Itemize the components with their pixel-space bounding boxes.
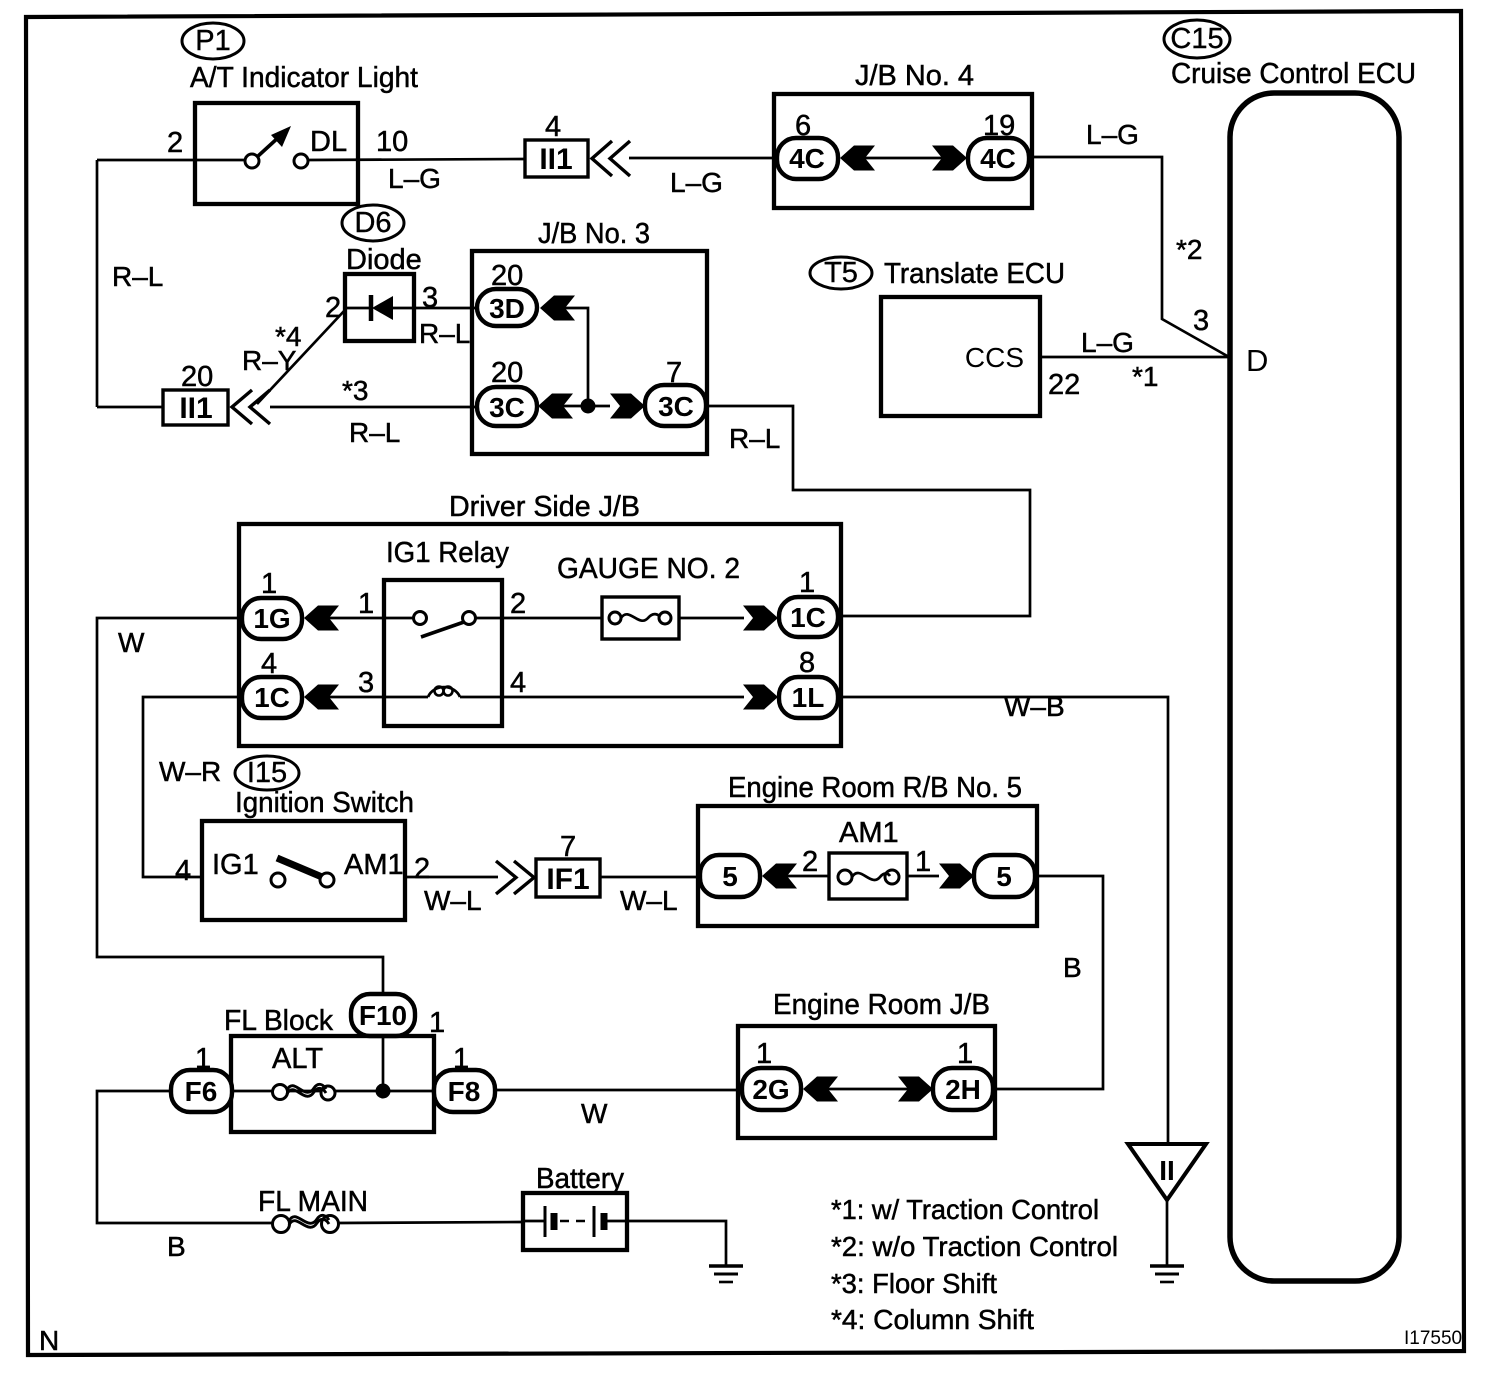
wire from relay to 1G arrow xyxy=(327,617,384,620)
svg-text:II1: II1 xyxy=(179,392,212,425)
svg-text:1: 1 xyxy=(756,1038,772,1070)
svg-text:2: 2 xyxy=(167,127,183,159)
wire B from F6 to FL MAIN xyxy=(97,1091,272,1223)
junction block No.3 box xyxy=(472,251,707,454)
svg-text:W–R: W–R xyxy=(159,756,221,787)
svg-text:II1: II1 xyxy=(539,143,572,176)
connector F10 xyxy=(351,994,415,1036)
connector 5 right xyxy=(974,855,1035,897)
wire R-L from 3C right to 1C xyxy=(706,406,1030,616)
svg-text:R–L: R–L xyxy=(729,423,780,454)
male arrow into 1C left xyxy=(304,685,339,710)
wire from F10 to junction xyxy=(382,1036,385,1091)
svg-text:*4: Column Shift: *4: Column Shift xyxy=(831,1304,1034,1335)
connector ref P1 xyxy=(182,23,244,59)
male connector chevrons into IF1 xyxy=(496,861,534,894)
fuse GAUGE NO.2 box xyxy=(602,597,679,639)
svg-text:W–B: W–B xyxy=(1004,691,1065,722)
svg-text:*1: *1 xyxy=(1132,361,1158,392)
svg-text:B: B xyxy=(167,1231,186,1262)
svg-text:4: 4 xyxy=(175,855,191,887)
svg-text:Ignition Switch: Ignition Switch xyxy=(235,787,414,819)
svg-text:IG1: IG1 xyxy=(212,849,259,881)
male arrow into 1G xyxy=(304,606,339,631)
wire between arrows in J/B No.3 xyxy=(561,405,610,408)
svg-text:1G: 1G xyxy=(253,603,290,634)
svg-text:T5: T5 xyxy=(824,257,858,289)
svg-text:W: W xyxy=(581,1098,608,1129)
wire inside FL block xyxy=(232,1090,434,1093)
connector F8 xyxy=(434,1070,495,1112)
connector 5 left xyxy=(700,855,760,897)
wire inside A/T indicator to switch xyxy=(195,159,245,162)
diode D6 box xyxy=(345,274,414,341)
diode symbol xyxy=(369,295,374,321)
svg-text:20: 20 xyxy=(491,357,523,389)
ignition switch contacts xyxy=(271,873,285,887)
switch DL inside A/T indicator xyxy=(245,154,259,168)
svg-text:4C: 4C xyxy=(980,143,1016,174)
relay coil xyxy=(384,696,428,699)
connector 1C left xyxy=(242,677,302,718)
connector 2H xyxy=(933,1068,993,1110)
ignition switch box I15 xyxy=(202,821,405,920)
svg-text:II: II xyxy=(1159,1155,1175,1186)
wire from relay to 1L arrow xyxy=(502,696,744,699)
svg-text:F6: F6 xyxy=(185,1076,218,1107)
svg-text:*1: w/ Traction Control: *1: w/ Traction Control xyxy=(831,1194,1099,1225)
svg-text:Battery: Battery xyxy=(536,1163,624,1195)
svg-text:R–L: R–L xyxy=(419,318,470,349)
connector 2G xyxy=(742,1068,801,1110)
svg-text:L–G: L–G xyxy=(388,163,441,194)
connector 3D xyxy=(477,289,537,326)
male arrow into 1L xyxy=(743,685,778,710)
battery symbol xyxy=(523,1220,545,1223)
svg-text:*3: Floor Shift: *3: Floor Shift xyxy=(831,1268,997,1299)
svg-text:Engine Room R/B No. 5: Engine Room R/B No. 5 xyxy=(728,772,1022,804)
wire W-L from IF1 to Engine Room R/B xyxy=(600,876,700,879)
wire from FL MAIN to battery xyxy=(338,1222,523,1223)
engine room relay block No.5 box xyxy=(698,806,1037,926)
male arrow into 2G xyxy=(803,1077,838,1102)
svg-text:L–G: L–G xyxy=(1086,119,1139,150)
svg-text:1C: 1C xyxy=(790,602,826,633)
wire *4 R-Y diagonal from diode to II1 xyxy=(257,310,345,404)
driver side junction block box xyxy=(239,524,841,746)
svg-text:W: W xyxy=(118,627,145,658)
cruise control ECU body xyxy=(1230,93,1399,1281)
svg-text:AM1: AM1 xyxy=(839,817,899,849)
svg-text:5: 5 xyxy=(996,861,1012,892)
svg-text:I17550: I17550 xyxy=(1404,1328,1462,1349)
wire W from 1G to F10 xyxy=(97,618,383,995)
svg-text:D: D xyxy=(1246,343,1268,378)
svg-text:Diode: Diode xyxy=(346,244,422,276)
wire L-G from J/B No.4 to II1 xyxy=(629,157,777,160)
FL block box xyxy=(231,1036,434,1132)
junction block No.4 box xyxy=(774,94,1032,208)
svg-text:DL: DL xyxy=(310,126,347,158)
svg-text:F10: F10 xyxy=(359,1000,407,1031)
female connector chevrons at II1 top xyxy=(592,141,630,176)
connector F6 xyxy=(171,1070,232,1112)
svg-text:D6: D6 xyxy=(354,207,391,239)
svg-text:W–L: W–L xyxy=(424,885,482,916)
svg-text:1: 1 xyxy=(358,588,374,620)
fuse symbol xyxy=(838,870,852,884)
svg-text:Engine Room J/B: Engine Room J/B xyxy=(773,989,990,1021)
junction dot xyxy=(376,1084,391,1099)
svg-text:1: 1 xyxy=(799,567,815,599)
wire W-B from 1L to ground triangle xyxy=(838,697,1168,1144)
svg-text:IG1 Relay: IG1 Relay xyxy=(386,537,509,569)
svg-text:5: 5 xyxy=(722,861,738,892)
svg-text:2: 2 xyxy=(802,846,818,878)
svg-text:B: B xyxy=(1063,952,1082,983)
male arrow into 3C right xyxy=(610,394,645,419)
male arrow into 3D xyxy=(540,296,575,321)
svg-text:1C: 1C xyxy=(254,682,290,713)
svg-text:3: 3 xyxy=(1193,305,1209,337)
svg-text:R–L: R–L xyxy=(349,417,400,448)
svg-text:J/B No. 4: J/B No. 4 xyxy=(855,60,974,92)
male arrow into 5 right xyxy=(939,864,974,889)
svg-text:GAUGE NO. 2: GAUGE NO. 2 xyxy=(557,553,740,585)
svg-text:1: 1 xyxy=(957,1038,973,1070)
svg-text:L–G: L–G xyxy=(1081,327,1134,358)
svg-text:*2: w/o Traction Control: *2: w/o Traction Control xyxy=(831,1231,1118,1262)
connector IF1 xyxy=(536,859,600,897)
svg-text:3: 3 xyxy=(358,667,374,699)
wire between arrows xyxy=(826,1088,909,1091)
wire into II1 bottom xyxy=(97,406,163,409)
ground triangle II xyxy=(1128,1144,1206,1200)
male arrow into 5 left xyxy=(762,864,797,889)
svg-text:1: 1 xyxy=(915,846,931,878)
svg-text:2: 2 xyxy=(414,853,430,885)
svg-text:R–L: R–L xyxy=(112,261,163,292)
wire B from 5 right to 2H xyxy=(995,876,1103,1089)
engine room junction block box xyxy=(738,1026,995,1138)
wire L-G from DL to II1 xyxy=(308,159,526,160)
svg-text:3C: 3C xyxy=(658,391,694,422)
svg-text:A/T Indicator Light: A/T Indicator Light xyxy=(190,62,418,94)
connector ref I15 xyxy=(235,756,299,790)
wire from triangle to ground xyxy=(1166,1200,1169,1265)
battery box xyxy=(523,1193,627,1250)
svg-text:2G: 2G xyxy=(752,1074,789,1105)
svg-text:1L: 1L xyxy=(792,682,825,713)
connector ref C15 xyxy=(1164,20,1230,58)
svg-text:20: 20 xyxy=(181,361,213,393)
svg-text:Driver Side J/B: Driver Side J/B xyxy=(449,491,640,523)
male arrow into 2H xyxy=(898,1077,933,1102)
svg-text:1: 1 xyxy=(261,568,277,600)
ground under battery xyxy=(709,1264,743,1268)
svg-text:Translate ECU: Translate ECU xyxy=(884,258,1065,290)
connector II1 (bottom) xyxy=(163,390,228,425)
svg-text:3C: 3C xyxy=(489,392,525,423)
svg-text:P1: P1 xyxy=(195,25,230,57)
wire from fuse to 1C arrow xyxy=(679,617,744,620)
svg-text:C15: C15 xyxy=(1170,23,1223,55)
junction dot xyxy=(581,399,596,414)
svg-text:FL Block: FL Block xyxy=(224,1005,333,1037)
wire L-G from 4C to cruise ECU xyxy=(1029,157,1229,357)
connector 3C right xyxy=(645,385,706,426)
wire from fuse to arrow right xyxy=(907,875,939,878)
svg-text:4: 4 xyxy=(545,111,561,143)
wire R-L vertical left xyxy=(96,160,99,407)
svg-text:*2: *2 xyxy=(1176,234,1202,265)
wire from battery to ground xyxy=(627,1221,726,1265)
fuse AM1 box xyxy=(829,853,907,899)
connector ref D6 xyxy=(342,205,404,241)
connector ref T5 xyxy=(810,257,872,289)
translate ECU CCS box xyxy=(881,297,1040,416)
fusible link FL MAIN xyxy=(273,1216,290,1233)
svg-text:*3: *3 xyxy=(342,375,368,406)
svg-text:J/B No. 3: J/B No. 3 xyxy=(538,218,650,250)
A/T indicator light box P1 xyxy=(195,103,358,204)
svg-text:10: 10 xyxy=(376,126,408,158)
svg-text:N: N xyxy=(39,1325,59,1356)
ground symbol right xyxy=(1150,1264,1184,1268)
svg-text:8: 8 xyxy=(799,647,815,679)
wire pin2 to left vertical xyxy=(97,159,195,162)
svg-text:AM1: AM1 xyxy=(344,849,404,881)
svg-text:Cruise Control ECU: Cruise Control ECU xyxy=(1171,58,1416,90)
svg-text:ALT: ALT xyxy=(272,1043,323,1075)
wire between arrows in J/B No.4 xyxy=(863,157,945,160)
svg-text:I15: I15 xyxy=(247,757,287,789)
wire W-L from ignition switch to IF1 xyxy=(405,876,498,879)
wire from AM1 fuse to arrow xyxy=(785,875,829,878)
svg-text:FL MAIN: FL MAIN xyxy=(258,1186,368,1218)
male arrow into 3C left xyxy=(538,394,573,419)
svg-text:4: 4 xyxy=(510,667,526,699)
svg-text:3D: 3D xyxy=(489,293,525,324)
wire L-G from CCS to D xyxy=(1040,356,1229,359)
svg-text:2: 2 xyxy=(325,292,341,324)
connector 4C right xyxy=(968,138,1029,179)
connector 1G xyxy=(242,598,302,639)
fuse symbol xyxy=(609,612,621,624)
svg-text:IF1: IF1 xyxy=(546,863,589,896)
svg-text:W–L: W–L xyxy=(620,885,678,916)
svg-text:22: 22 xyxy=(1048,369,1080,401)
male arrow into 4C left xyxy=(840,146,875,171)
wire from relay to fuse xyxy=(502,617,602,620)
wire from relay to 1C arrow xyxy=(327,696,384,699)
wire W-R from 1C to ignition switch xyxy=(143,697,242,877)
connector 4C left xyxy=(777,138,838,179)
svg-text:2: 2 xyxy=(510,588,526,620)
svg-text:R–Y: R–Y xyxy=(242,345,297,376)
connector 1C right xyxy=(779,597,838,637)
connector II1 (top) xyxy=(525,140,588,177)
connector 1L xyxy=(779,677,838,718)
svg-text:2H: 2H xyxy=(945,1074,981,1105)
male arrow into 1C right xyxy=(743,606,778,631)
wire from arrow to junction xyxy=(563,308,588,406)
svg-text:L–G: L–G xyxy=(670,167,723,198)
relay contact xyxy=(384,617,413,620)
female connector chevrons at II1 bottom xyxy=(232,390,270,424)
wire W from F8 to 2G xyxy=(495,1089,742,1092)
svg-text:4C: 4C xyxy=(789,143,825,174)
svg-text:CCS: CCS xyxy=(965,342,1024,373)
wire *3 R-L from 3C to II1 xyxy=(270,406,478,409)
wire from diode to J/B No.3 3D xyxy=(414,307,478,310)
connector 3C left xyxy=(477,387,537,426)
male arrow into 4C right xyxy=(932,146,967,171)
IG1 relay box xyxy=(384,580,502,726)
fusible link ALT xyxy=(273,1085,288,1100)
svg-text:F8: F8 xyxy=(448,1076,481,1107)
